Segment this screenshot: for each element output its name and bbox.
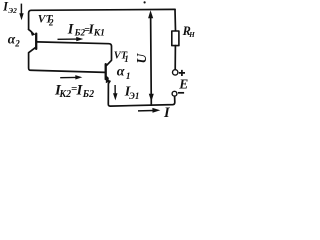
svg-text:E: E — [178, 77, 188, 92]
svg-text:К1: К1 — [93, 28, 105, 38]
current arrow I (bottom, right) — [138, 108, 160, 113]
plus sign — [179, 70, 185, 76]
current arrow I_B2 (right) — [58, 37, 84, 41]
svg-text:Н: Н — [188, 31, 195, 39]
terminal circle minus — [172, 91, 177, 96]
svg-text:2: 2 — [48, 18, 54, 28]
resistor RH — [172, 31, 179, 46]
arrowhead U bottom — [149, 94, 154, 102]
wire right side down to resistor — [174, 9, 177, 31]
transistor VT1 emitter wire — [107, 77, 109, 78]
svg-text:К2: К2 — [58, 89, 71, 100]
wire VT2 base to VT1 collector — [37, 42, 111, 65]
transistor VT1 base bar — [105, 64, 107, 79]
current arrow I_E2 (top left, down) — [19, 4, 23, 21]
svg-text:1: 1 — [124, 54, 129, 64]
arrowhead VT2 emitter (pnp, into bar) — [30, 29, 36, 36]
transistor VT2 emitter wire — [29, 30, 32, 32]
svg-text:Э1: Э1 — [129, 91, 139, 101]
terminal circle plus — [173, 70, 178, 75]
svg-text:α: α — [117, 64, 125, 79]
svg-text:U: U — [134, 52, 149, 63]
arrowhead VT1 emitter (npn, outward) — [106, 76, 111, 83]
arrowhead U top — [148, 10, 153, 18]
transistor VT2 base bar — [35, 34, 37, 49]
svg-text:Б2: Б2 — [82, 89, 94, 100]
transistor VT2 collector wire, down to VT1 base — [29, 47, 105, 72]
svg-text:2: 2 — [14, 38, 20, 48]
junction dot on top rail — [144, 1, 146, 3]
minus sign — [178, 92, 184, 94]
svg-text:1: 1 — [126, 71, 131, 81]
svg-text:Э2: Э2 — [8, 6, 17, 15]
wire minus terminal to bottom rail — [108, 81, 175, 106]
current arrow I_K2 (right) — [60, 75, 82, 79]
current arrow I_E1 (down) — [113, 85, 118, 100]
voltage arrow U line — [150, 14, 153, 106]
svg-text:I: I — [67, 22, 75, 38]
wire resistor to plus terminal — [174, 46, 176, 70]
svg-text:I: I — [163, 105, 171, 121]
wire top rail with left loop corner — [29, 9, 175, 29]
